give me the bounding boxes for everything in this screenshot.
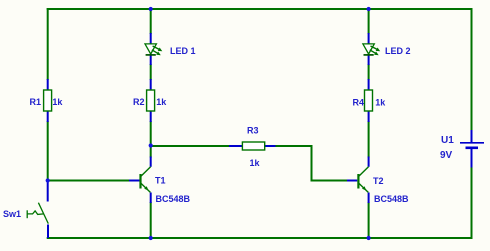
svg-text:BC548B: BC548B [156, 194, 191, 204]
svg-text:BC548B: BC548B [374, 194, 409, 204]
svg-text:9V: 9V [440, 150, 453, 161]
svg-text:LED 2: LED 2 [385, 46, 411, 56]
svg-text:R1: R1 [30, 97, 42, 107]
svg-text:T2: T2 [373, 176, 384, 186]
svg-text:1k: 1k [52, 97, 63, 107]
svg-text:1k: 1k [375, 98, 386, 108]
svg-text:T1: T1 [155, 176, 166, 186]
svg-text:1k: 1k [250, 158, 261, 168]
svg-text:1k: 1k [156, 97, 167, 107]
svg-text:R2: R2 [133, 97, 145, 107]
svg-text:R3: R3 [247, 126, 259, 136]
svg-text:U1: U1 [441, 135, 454, 146]
svg-text:LED 1: LED 1 [170, 46, 196, 56]
svg-text:R4: R4 [353, 98, 365, 108]
svg-text:Sw1: Sw1 [3, 209, 21, 219]
